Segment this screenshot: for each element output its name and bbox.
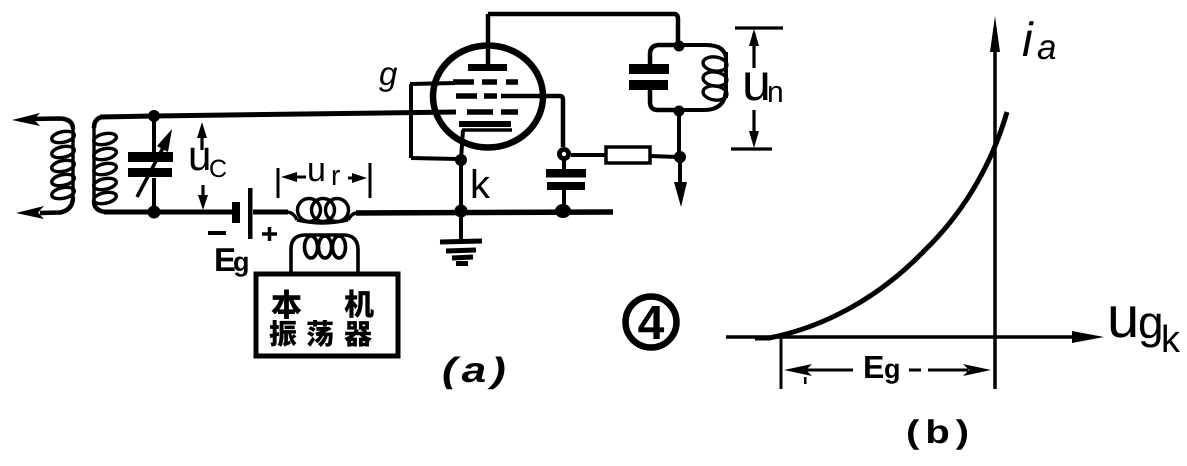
resistor R1 xyxy=(571,155,678,157)
inductor L4 oscillator coupling xyxy=(291,235,358,273)
dimension ur xyxy=(278,163,370,198)
node tank1 bottom xyxy=(148,206,161,219)
wire anode top xyxy=(488,14,678,44)
dimension un xyxy=(731,28,783,149)
node k junction xyxy=(455,154,467,166)
capacitor C3 tank xyxy=(650,45,679,110)
ground xyxy=(459,211,463,239)
label 振荡器 xyxy=(269,320,296,347)
label g xyxy=(379,67,397,92)
tube V1 envelope xyxy=(433,46,543,148)
node tank2 bottom xyxy=(674,106,685,117)
node tank2 top xyxy=(674,41,685,52)
wire bottom left xyxy=(104,210,234,215)
local oscillator box xyxy=(256,274,398,356)
label Eg xyxy=(216,248,235,271)
wire battery to coil xyxy=(253,210,288,215)
dimension Eg graph xyxy=(780,338,783,389)
antenna arrow top xyxy=(28,119,73,130)
wire k down xyxy=(459,160,463,211)
antenna arrow bottom xyxy=(40,197,73,213)
tube grid row2 xyxy=(456,93,497,99)
coil L2 secondary xyxy=(93,128,118,206)
arrow output down xyxy=(678,157,682,186)
label k xyxy=(473,169,490,198)
label (a) xyxy=(444,356,461,389)
inductor L3 ur coil xyxy=(288,199,357,224)
label 本机 xyxy=(271,289,301,318)
node tank1 top xyxy=(148,110,160,122)
label Eg graph xyxy=(865,356,883,378)
capacitor C2 bypass xyxy=(562,160,566,211)
wire tank to output node xyxy=(677,111,681,157)
dimension uc arrows xyxy=(202,132,203,201)
capacitor C1 variable xyxy=(152,118,156,210)
label (b) xyxy=(908,419,919,450)
label un xyxy=(745,73,767,101)
figure number 4 xyxy=(626,297,677,348)
wire g loop xyxy=(410,83,458,159)
node k bottom xyxy=(455,205,468,218)
label uc xyxy=(191,148,209,171)
coil L1 antenna primary xyxy=(51,129,76,201)
tube cathode xyxy=(459,121,511,127)
label ur xyxy=(309,163,323,181)
label ia xyxy=(1023,21,1034,56)
inductor L5 output xyxy=(679,45,726,110)
node output xyxy=(674,151,686,163)
curve ia-ugk xyxy=(755,112,1007,338)
graph y axis xyxy=(993,28,997,389)
wire screen grid xyxy=(501,96,563,147)
tube grid row3 xyxy=(467,109,518,115)
node C2 bottom xyxy=(555,204,571,218)
tube anode xyxy=(468,64,507,71)
graph x axis xyxy=(726,335,1086,339)
battery Eg xyxy=(232,202,240,223)
tube grid row1 xyxy=(453,82,518,112)
node screen xyxy=(557,147,571,161)
wire bottom middle xyxy=(356,212,613,213)
label ugk xyxy=(1111,306,1136,337)
wire top input xyxy=(100,112,456,117)
